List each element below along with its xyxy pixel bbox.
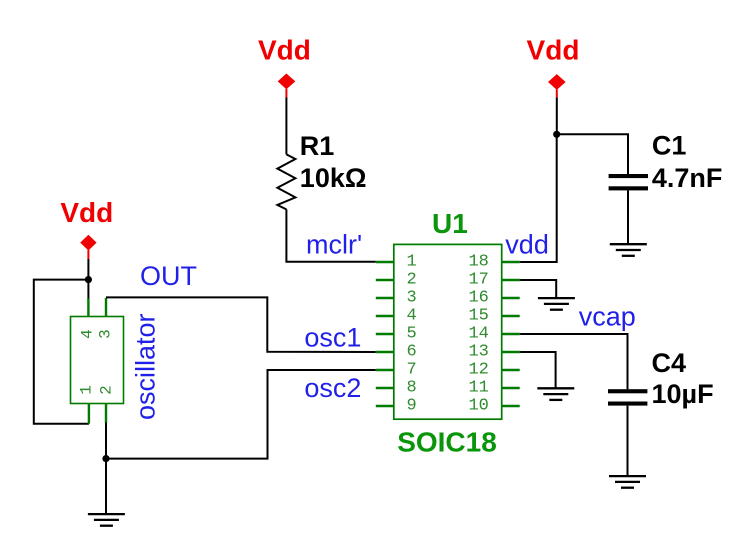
node junction at oscillator top — [85, 276, 92, 283]
wire junction to ground — [105, 459, 107, 514]
ground (C1) — [610, 244, 647, 256]
svg-text:2: 2 — [407, 271, 417, 290]
ground (C4) — [609, 476, 646, 488]
svg-text:Vdd: Vdd — [527, 35, 580, 66]
U1 pin 6 stub — [376, 351, 394, 353]
wire net osc2: U1 pin 7 to oscillator pin 2 — [106, 370, 376, 459]
capacitor C1 — [609, 174, 648, 190]
svg-text:oscillator: oscillator — [131, 313, 161, 420]
U1 pin 10 stub — [502, 405, 520, 407]
svg-text:18: 18 — [468, 253, 488, 272]
svg-text:C4: C4 — [652, 348, 687, 378]
U1 pin 8 stub — [376, 387, 394, 389]
svg-text:vcap: vcap — [579, 301, 636, 331]
wire net vcap: U1 pin 14 to C4 — [520, 334, 628, 389]
svg-text:17: 17 — [468, 271, 488, 290]
wire U1 pin 17 to ground — [520, 280, 557, 298]
wire oscillator pin 2 down to junction — [105, 423, 107, 459]
svg-text:1: 1 — [407, 253, 417, 272]
U1 pin 7 stub — [376, 369, 394, 371]
U1 pin 5 stub — [376, 333, 394, 335]
U1 pin 9 stub — [376, 405, 394, 407]
wire feedback loop left side — [34, 280, 89, 424]
U1 pin 15 stub — [502, 315, 520, 317]
svg-text:4: 4 — [407, 307, 417, 326]
svg-text:4: 4 — [79, 329, 97, 339]
resistor R1 — [277, 154, 295, 209]
svg-text:Vdd: Vdd — [258, 35, 311, 66]
U1 pin 13 stub — [502, 351, 520, 353]
wire C4 bottom to ground — [627, 406, 629, 476]
U1 pin 17 stub — [502, 279, 520, 281]
svg-text:3: 3 — [407, 289, 417, 308]
node junction vdd net — [553, 131, 560, 138]
svg-text:9: 9 — [407, 397, 417, 416]
oscillator pin 1 stub — [88, 404, 90, 424]
svg-text:15: 15 — [468, 307, 488, 326]
oscillator pin 3 stub — [105, 298, 107, 317]
ground (oscillator) — [88, 514, 125, 526]
ground (pin 17) — [538, 298, 575, 310]
U1 pin 18 stub — [502, 261, 520, 263]
svg-text:4.7nF: 4.7nF — [652, 163, 723, 193]
svg-text:6: 6 — [407, 343, 417, 362]
svg-text:mclr': mclr' — [306, 229, 362, 259]
svg-text:OUT: OUT — [140, 261, 197, 291]
wire junction to C1 top — [557, 134, 628, 174]
svg-text:12: 12 — [468, 361, 488, 380]
svg-text:U1: U1 — [432, 208, 468, 239]
svg-text:11: 11 — [468, 379, 488, 398]
wire junction down to U1 pin 18 — [520, 134, 557, 262]
svg-text:10: 10 — [468, 397, 488, 416]
node junction at oscillator bottom — [102, 455, 109, 462]
power symbol Vdd (above C1) — [527, 35, 580, 98]
svg-text:SOIC18: SOIC18 — [397, 426, 497, 457]
U1 pin 4 stub — [376, 315, 394, 317]
svg-text:R1: R1 — [300, 131, 335, 161]
svg-text:vdd: vdd — [505, 229, 549, 259]
IC U1 body — [394, 244, 502, 419]
U1 pin 12 stub — [502, 369, 520, 371]
svg-text:14: 14 — [468, 325, 488, 344]
svg-text:8: 8 — [407, 379, 417, 398]
wire net OUT: oscillator pin 3 to U1 pin 6 — [106, 297, 376, 352]
svg-text:13: 13 — [468, 343, 488, 362]
U1 pin 3 stub — [376, 297, 394, 299]
wire Vdd to R1 top — [285, 98, 287, 155]
svg-text:osc1: osc1 — [304, 323, 361, 353]
U1 pin 1 stub — [376, 261, 394, 263]
svg-text:10kΩ: 10kΩ — [300, 163, 367, 193]
U1 pin 14 stub — [502, 333, 520, 335]
capacitor C4 — [608, 389, 647, 405]
oscillator X1 body — [71, 317, 124, 404]
wire Vdd down to junction — [556, 98, 558, 135]
U1 pin 16 stub — [502, 297, 520, 299]
wire C1 bottom to ground — [627, 190, 629, 244]
wire U1 pin 13 to ground — [520, 352, 556, 388]
ground (pin 13) — [537, 388, 574, 400]
wire Vdd stem to oscillator pin 4 — [87, 259, 89, 300]
svg-text:osc2: osc2 — [304, 373, 361, 403]
svg-text:16: 16 — [468, 289, 488, 308]
power symbol Vdd (left, oscillator supply) — [60, 197, 113, 259]
svg-text:Vdd: Vdd — [60, 197, 113, 228]
svg-text:C1: C1 — [652, 131, 687, 161]
wire R1 bottom to U1 pin 1 — [286, 209, 375, 261]
svg-text:3: 3 — [97, 329, 115, 339]
svg-text:2: 2 — [98, 385, 116, 395]
U1 pin 2 stub — [376, 279, 394, 281]
oscillator pin 4 stub — [87, 299, 89, 317]
oscillator pin 2 stub — [105, 404, 107, 424]
svg-text:5: 5 — [407, 325, 417, 344]
U1 pin 11 stub — [502, 387, 520, 389]
svg-text:7: 7 — [407, 361, 417, 380]
svg-text:10µF: 10µF — [652, 379, 714, 409]
svg-text:1: 1 — [77, 385, 95, 395]
power symbol Vdd (above R1) — [258, 35, 311, 98]
